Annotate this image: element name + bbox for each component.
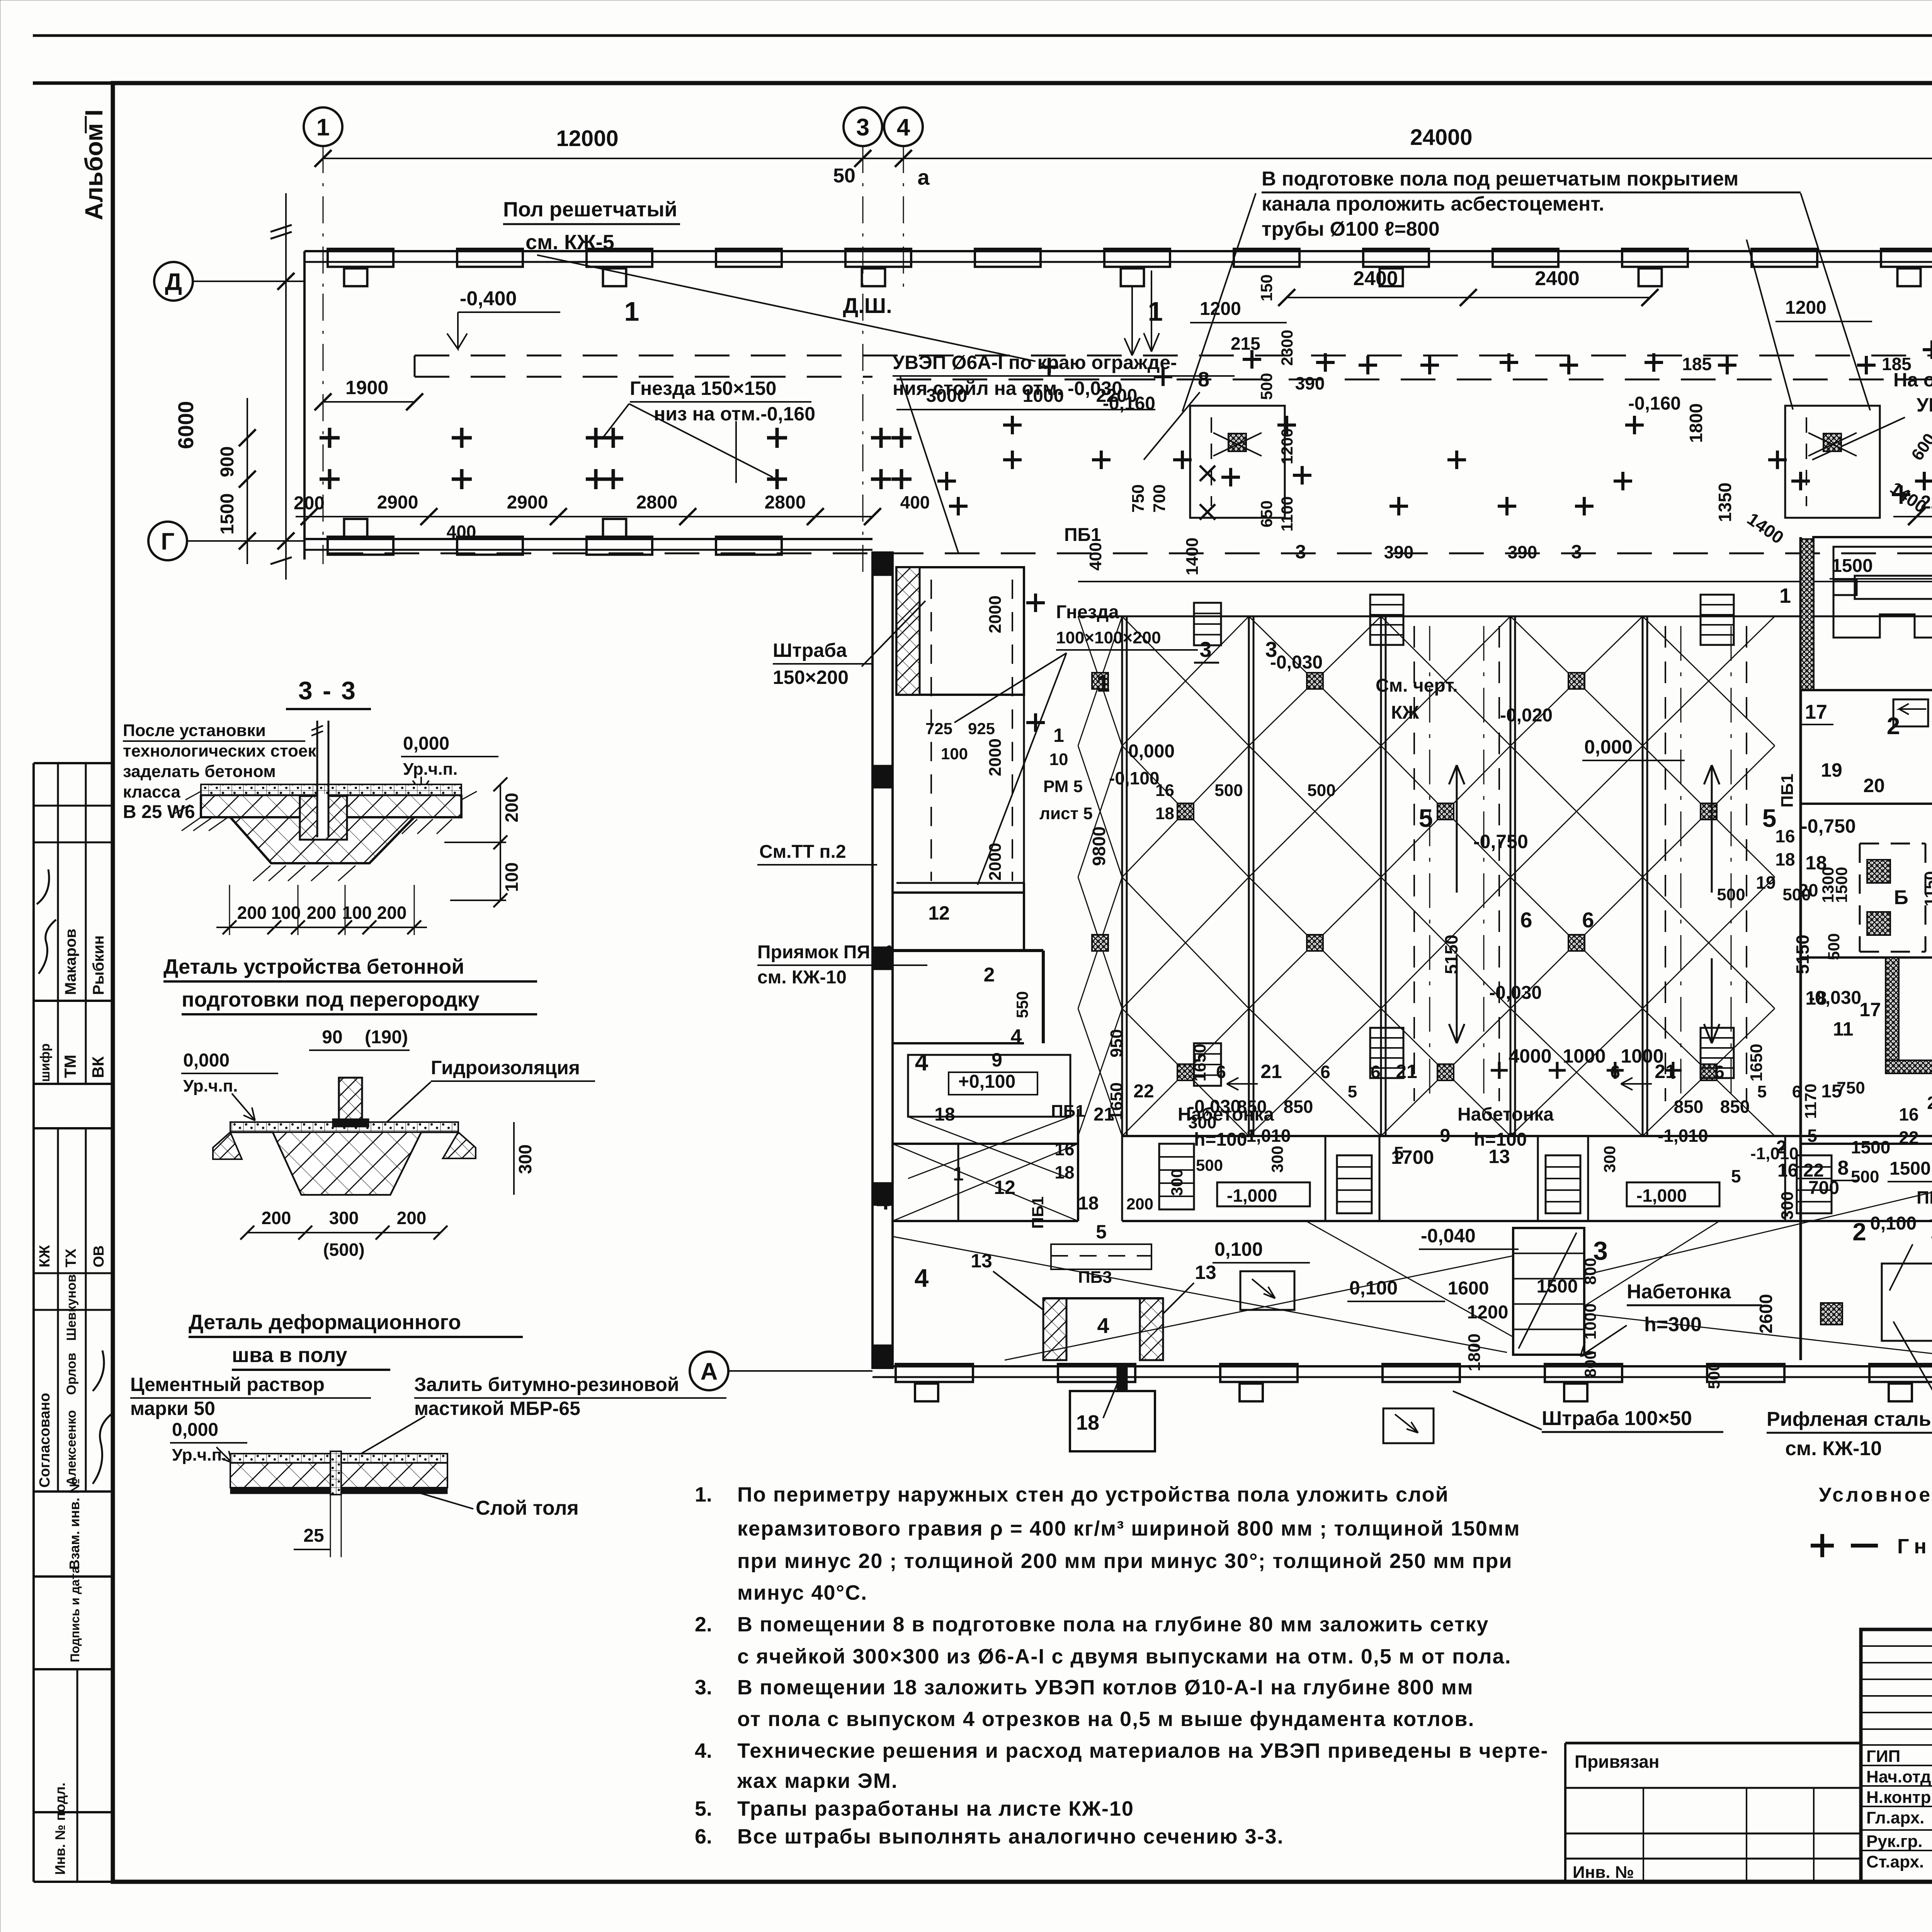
svg-text:Алексеенко: Алексеенко bbox=[64, 1410, 79, 1486]
svg-text:a: a bbox=[917, 165, 930, 189]
svg-text:200: 200 bbox=[294, 493, 325, 514]
svg-text:1150: 1150 bbox=[1921, 871, 1932, 906]
svg-text:Макаров: Макаров bbox=[62, 929, 79, 995]
svg-text:1000: 1000 bbox=[1621, 1045, 1663, 1067]
left end wall of building bbox=[303, 251, 306, 560]
svg-text:700: 700 bbox=[1150, 484, 1169, 512]
svg-text:В помещении 18 заложить УВЭП к: В помещении 18 заложить УВЭП котлов Ø10-… bbox=[737, 1676, 1474, 1699]
svg-text:Б: Б bbox=[1894, 886, 1908, 909]
svg-text:от пола с выпуском 4 отрезков: от пола с выпуском 4 отрезков на 0,5 м в… bbox=[737, 1708, 1475, 1731]
svg-text:мастикой МБР-65: мастикой МБР-65 bbox=[414, 1398, 580, 1419]
milking hall stall rows bbox=[1121, 616, 1123, 1136]
svg-text:ТХ: ТХ bbox=[63, 1248, 79, 1267]
detail 3-3 drawing bbox=[201, 784, 461, 795]
svg-text:3: 3 bbox=[1571, 541, 1582, 563]
svg-text:Гл.арх.: Гл.арх. bbox=[1866, 1808, 1924, 1827]
svg-text:Технические решения и расход м: Технические решения и расход материалов … bbox=[737, 1739, 1548, 1762]
svg-text:100: 100 bbox=[941, 745, 968, 763]
svg-text:См. черт.: См. черт. bbox=[1376, 675, 1458, 696]
svg-text:22: 22 bbox=[1133, 1081, 1154, 1102]
axis circle 4 bbox=[884, 107, 923, 146]
svg-text:2400: 2400 bbox=[1535, 267, 1580, 290]
svg-text:300: 300 bbox=[329, 1208, 359, 1228]
svg-text:750: 750 bbox=[1129, 484, 1148, 512]
svg-text:марки 50: марки 50 bbox=[130, 1398, 215, 1419]
detail 2 drawing bbox=[230, 1122, 458, 1132]
svg-text:А: А bbox=[701, 1358, 718, 1385]
axis circle 3 bbox=[844, 107, 882, 146]
svg-text:По периметру наружных стен до: По периметру наружных стен до устройства… bbox=[737, 1483, 1449, 1506]
svg-text:500: 500 bbox=[1851, 1167, 1879, 1186]
svg-text:шва в полу: шва в полу bbox=[232, 1344, 347, 1367]
svg-text:925: 925 bbox=[968, 719, 995, 738]
svg-text:1800: 1800 bbox=[1465, 1333, 1484, 1371]
svg-text:Шевкунов: Шевкунов bbox=[64, 1274, 79, 1341]
svg-text:На отм.-0,120 заложить: На отм.-0,120 заложить bbox=[1893, 369, 1932, 391]
svg-text:минус 40°С.: минус 40°С. bbox=[737, 1581, 867, 1604]
svg-text:УВЭП Ø6А-I по краю огражде-: УВЭП Ø6А-I по краю огражде- bbox=[893, 352, 1177, 373]
svg-text:0,000: 0,000 bbox=[1584, 736, 1633, 758]
svg-text:см. КЖ-5: см. КЖ-5 bbox=[526, 231, 614, 254]
pit band bbox=[1122, 1135, 1932, 1137]
svg-text:1650: 1650 bbox=[1190, 1044, 1209, 1082]
svg-text:4: 4 bbox=[1011, 1026, 1022, 1048]
svg-text:500: 500 bbox=[1705, 1362, 1723, 1389]
svg-text:4000: 4000 bbox=[1509, 1045, 1551, 1067]
svg-text:2900: 2900 bbox=[507, 492, 548, 513]
room with +0,100 bbox=[908, 1055, 1070, 1117]
svg-text:21: 21 bbox=[1396, 1061, 1417, 1082]
svg-text:В 25 W6: В 25 W6 bbox=[123, 802, 195, 822]
svg-text:550: 550 bbox=[1013, 991, 1031, 1018]
svg-text:1: 1 bbox=[1148, 296, 1163, 327]
svg-text:Залить битумно-резиновой: Залить битумно-резиновой bbox=[414, 1374, 679, 1395]
svg-text:2.: 2. bbox=[695, 1613, 712, 1636]
svg-text:-1,010: -1,010 bbox=[1658, 1126, 1708, 1146]
svg-text:725: 725 bbox=[925, 719, 952, 738]
left margin vertical stamp column bbox=[32, 763, 35, 1882]
svg-text:390: 390 bbox=[1508, 542, 1537, 562]
svg-text:КЖ: КЖ bbox=[1391, 702, 1419, 723]
svg-text:390: 390 bbox=[1384, 542, 1414, 562]
svg-text:-0,030: -0,030 bbox=[1489, 983, 1542, 1003]
svg-text:390: 390 bbox=[1295, 373, 1325, 393]
svg-text:2: 2 bbox=[984, 964, 995, 986]
svg-text:Все штрабы выполнять аналогичн: Все штрабы выполнять аналогично сечению … bbox=[737, 1825, 1284, 1848]
svg-text:лист 5: лист 5 bbox=[1039, 804, 1093, 823]
svg-text:1600: 1600 bbox=[1448, 1278, 1489, 1299]
svg-text:1200: 1200 bbox=[1785, 298, 1827, 318]
bottom wall of left wing bbox=[304, 538, 872, 540]
svg-text:ПБ1: ПБ1 bbox=[1917, 1187, 1932, 1207]
svg-text:2400: 2400 bbox=[1353, 267, 1398, 290]
axis lines vertical bbox=[323, 146, 324, 294]
svg-text:850: 850 bbox=[1284, 1097, 1313, 1117]
svg-text:12000: 12000 bbox=[556, 126, 618, 151]
svg-text:100: 100 bbox=[342, 903, 372, 923]
svg-text:9: 9 bbox=[1440, 1126, 1451, 1146]
svg-text:с ячейкой 300×300 из Ø6-А-I с: с ячейкой 300×300 из Ø6-А-I с двумя выпу… bbox=[737, 1645, 1512, 1668]
svg-text:1200: 1200 bbox=[1467, 1302, 1509, 1323]
svg-text:1650: 1650 bbox=[1747, 1044, 1766, 1082]
svg-text:21: 21 bbox=[1260, 1061, 1282, 1082]
svg-text:низ на отм.-0,160: низ на отм.-0,160 bbox=[654, 403, 815, 425]
svg-text:8: 8 bbox=[1198, 368, 1209, 391]
top exterior wall band bbox=[304, 250, 1932, 252]
-1,000 boxes bbox=[1217, 1182, 1310, 1206]
svg-text:Штраба 100×50: Штраба 100×50 bbox=[1542, 1407, 1692, 1430]
svg-text:5: 5 bbox=[1731, 1166, 1741, 1186]
svg-text:300: 300 bbox=[1778, 1191, 1797, 1219]
top band bottom / inner frame top bbox=[33, 82, 1932, 85]
svg-text:3000: 3000 bbox=[926, 386, 968, 406]
svg-text:1500: 1500 bbox=[217, 493, 238, 535]
svg-text:-1,000: -1,000 bbox=[1636, 1185, 1687, 1206]
svg-text:4.: 4. bbox=[695, 1739, 712, 1762]
svg-text:-0,040: -0,040 bbox=[1421, 1225, 1476, 1247]
svg-text:-0,030: -0,030 bbox=[1270, 652, 1323, 673]
svg-text:Инв. № подл.: Инв. № подл. bbox=[52, 1782, 68, 1875]
svg-text:18: 18 bbox=[1076, 1411, 1099, 1434]
long diagonals bottom area bbox=[893, 1179, 1932, 1360]
svg-text:h=100: h=100 bbox=[1474, 1129, 1527, 1150]
detail 3 drawing bbox=[230, 1454, 447, 1463]
svg-text:В помещении 8 в подготовке пол: В помещении 8 в подготовке пола на глуби… bbox=[737, 1613, 1489, 1636]
svg-text:В подготовке пола под решетчат: В подготовке пола под решетчатым покрыти… bbox=[1262, 168, 1738, 190]
svg-text:ТМ: ТМ bbox=[61, 1054, 79, 1078]
svg-text:2000: 2000 bbox=[986, 738, 1005, 776]
svg-text:-1,000: -1,000 bbox=[1227, 1185, 1277, 1206]
svg-text:Н.контр.: Н.контр. bbox=[1866, 1788, 1932, 1807]
svg-text:Ур.ч.п.: Ур.ч.п. bbox=[183, 1077, 238, 1095]
svg-text:16: 16 bbox=[1899, 1104, 1918, 1124]
svg-text:-0,750: -0,750 bbox=[1801, 815, 1856, 837]
svg-text:1.: 1. bbox=[695, 1483, 712, 1506]
svg-text:ГИП: ГИП bbox=[1866, 1747, 1900, 1766]
svg-text:1500: 1500 bbox=[1832, 556, 1873, 576]
svg-text:200: 200 bbox=[262, 1208, 291, 1228]
svg-text:500: 500 bbox=[1717, 885, 1745, 904]
svg-text:5: 5 bbox=[1096, 1221, 1107, 1243]
svg-text:Г: Г bbox=[161, 528, 174, 555]
svg-text:24000: 24000 bbox=[1410, 125, 1472, 150]
axis circle G bbox=[148, 522, 187, 560]
svg-text:0,100: 0,100 bbox=[1870, 1213, 1917, 1234]
svg-text:1400: 1400 bbox=[1183, 537, 1202, 575]
dashed canal vertical left bbox=[414, 355, 416, 377]
svg-text:300: 300 bbox=[515, 1145, 535, 1174]
svg-text:17: 17 bbox=[1805, 701, 1827, 723]
central block left exterior wall bbox=[872, 553, 893, 1368]
svg-text:200: 200 bbox=[307, 903, 337, 923]
svg-text:3: 3 bbox=[1593, 1236, 1608, 1265]
svg-text:0,000: 0,000 bbox=[172, 1420, 218, 1440]
svg-text:Д: Д bbox=[165, 269, 182, 295]
svg-text:УВЭП Ø6 А-I оцинкованный: УВЭП Ø6 А-I оцинкованный bbox=[1917, 394, 1932, 416]
svg-text:9: 9 bbox=[992, 1049, 1002, 1071]
svg-text:1: 1 bbox=[1097, 670, 1110, 697]
svg-text:5: 5 bbox=[1757, 1082, 1767, 1101]
detail 3-3 bottom dims bbox=[216, 927, 427, 928]
dashed canal line 1 bbox=[415, 355, 1932, 357]
privyazan box bbox=[1565, 1742, 1861, 1745]
svg-text:при минус 20 ; толщиной 200 мм: при минус 20 ; толщиной 200 мм при минус… bbox=[737, 1549, 1513, 1573]
crosses rows left wing bbox=[320, 428, 340, 448]
stairs symbols bbox=[1370, 595, 1403, 645]
svg-text:Гнезда: Гнезда bbox=[1056, 602, 1119, 622]
svg-text:90: 90 bbox=[322, 1027, 342, 1048]
svg-text:5: 5 bbox=[1348, 1082, 1357, 1101]
svg-text:19: 19 bbox=[1756, 872, 1776, 893]
svg-text:6: 6 bbox=[1714, 1062, 1725, 1082]
svg-text:6: 6 bbox=[1582, 908, 1594, 932]
svg-text:заделать бетоном: заделать бетоном bbox=[123, 762, 276, 781]
misc crosses central strip bbox=[1040, 358, 1058, 376]
svg-text:950: 950 bbox=[1107, 1029, 1126, 1057]
svg-text:400: 400 bbox=[447, 522, 476, 542]
svg-text:2900: 2900 bbox=[377, 492, 418, 513]
bottom area stair block bbox=[1513, 1228, 1584, 1355]
svg-text:2: 2 bbox=[1776, 1137, 1787, 1158]
axis circle 1 bbox=[304, 107, 342, 146]
svg-text:Альбом I: Альбом I bbox=[80, 109, 108, 220]
svg-text:200: 200 bbox=[237, 903, 267, 923]
svg-text:трубы Ø100 ℓ=800: трубы Ø100 ℓ=800 bbox=[1262, 218, 1440, 240]
svg-text:2: 2 bbox=[1852, 1218, 1866, 1246]
detail 3-3 right dims bbox=[500, 784, 501, 900]
svg-text:ВК: ВК bbox=[89, 1056, 107, 1078]
svg-text:2300: 2300 bbox=[1278, 330, 1296, 366]
svg-text:-0,160: -0,160 bbox=[1628, 393, 1681, 414]
svg-text:500: 500 bbox=[1196, 1156, 1223, 1174]
svg-text:-0,100: -0,100 bbox=[1109, 768, 1159, 788]
svg-text:Приямок ПЯм1: Приямок ПЯм1 bbox=[757, 942, 894, 963]
svg-text:9800: 9800 bbox=[1089, 827, 1109, 866]
svg-text:(500): (500) bbox=[323, 1240, 364, 1260]
internal walls left part bbox=[893, 891, 1024, 894]
svg-text:Гидроизоляция: Гидроизоляция bbox=[431, 1057, 580, 1078]
svg-text:18: 18 bbox=[1775, 849, 1795, 869]
top dimension line bbox=[323, 158, 1932, 159]
svg-text:Слой толя: Слой толя bbox=[476, 1497, 579, 1519]
svg-text:4: 4 bbox=[1097, 1313, 1109, 1338]
svg-text:0,000: 0,000 bbox=[1128, 741, 1175, 762]
svg-text:1900: 1900 bbox=[345, 377, 388, 398]
svg-text:ПБ1: ПБ1 bbox=[1778, 774, 1797, 808]
detail 2 dims bbox=[247, 1232, 440, 1233]
sheet outer border top bbox=[33, 34, 1932, 37]
svg-text:1500: 1500 bbox=[1851, 1137, 1890, 1157]
svg-text:1: 1 bbox=[316, 114, 330, 141]
svg-text:технологических стоек: технологических стоек bbox=[123, 742, 316, 760]
svg-text:10: 10 bbox=[1049, 750, 1068, 769]
svg-text:шифр: шифр bbox=[38, 1043, 53, 1082]
svg-text:20: 20 bbox=[1863, 775, 1885, 796]
svg-text:см. КЖ-10: см. КЖ-10 bbox=[757, 967, 847, 988]
bottom vestibule bbox=[1070, 1391, 1155, 1451]
svg-text:6000: 6000 bbox=[173, 401, 198, 449]
svg-text:Д.Ш.: Д.Ш. bbox=[843, 293, 892, 318]
svg-text:класса: класса bbox=[123, 782, 180, 801]
svg-text:1650: 1650 bbox=[1107, 1082, 1126, 1120]
svg-text:-1,010: -1,010 bbox=[1240, 1126, 1291, 1146]
svg-text:4: 4 bbox=[876, 1188, 890, 1215]
svg-text:5: 5 bbox=[1762, 804, 1777, 832]
svg-text:850: 850 bbox=[1720, 1097, 1750, 1117]
svg-text:6: 6 bbox=[1216, 1062, 1226, 1082]
svg-text:19: 19 bbox=[1821, 759, 1842, 781]
svg-text:4: 4 bbox=[915, 1264, 929, 1292]
svg-text:(190): (190) bbox=[365, 1027, 408, 1048]
svg-text:5150: 5150 bbox=[1441, 935, 1461, 974]
svg-text:1800: 1800 bbox=[1686, 403, 1706, 443]
dims 3000 1000 2200 bbox=[896, 409, 1155, 410]
svg-text:500: 500 bbox=[1214, 781, 1243, 800]
svg-text:900: 900 bbox=[217, 446, 238, 477]
svg-text:0,000: 0,000 bbox=[183, 1050, 230, 1071]
svg-text:12: 12 bbox=[928, 902, 950, 924]
svg-text:Штраба: Штраба bbox=[773, 639, 847, 661]
svg-text:18: 18 bbox=[1155, 804, 1174, 823]
svg-text:18: 18 bbox=[1054, 1162, 1074, 1182]
svg-text:13: 13 bbox=[1195, 1262, 1216, 1283]
central block bottom exterior wall bbox=[872, 1365, 1932, 1367]
svg-text:Ст.арх.: Ст.арх. bbox=[1866, 1852, 1924, 1871]
svg-text:300: 300 bbox=[1600, 1146, 1619, 1173]
L-shaped wall lower right bbox=[1801, 956, 1932, 959]
svg-text:подготовки под перегородку: подготовки под перегородку bbox=[182, 988, 480, 1011]
svg-text:5.: 5. bbox=[695, 1797, 712, 1820]
axis circle D bbox=[154, 262, 193, 301]
svg-text:Гнездо: Гнездо bbox=[1897, 1535, 1932, 1558]
svg-text:-0,160: -0,160 bbox=[1103, 393, 1155, 414]
svg-text:50: 50 bbox=[833, 165, 855, 187]
svg-text:850: 850 bbox=[1674, 1097, 1704, 1117]
svg-text:h=300: h=300 bbox=[1644, 1313, 1702, 1336]
svg-text:жах марки ЭМ.: жах марки ЭМ. bbox=[737, 1769, 898, 1793]
dashed canal line 2 bbox=[415, 376, 872, 378]
svg-text:Рук.гр.: Рук.гр. bbox=[1866, 1832, 1923, 1851]
svg-text:300: 300 bbox=[1168, 1169, 1186, 1196]
svg-text:Рыбкин: Рыбкин bbox=[90, 935, 107, 995]
svg-text:200: 200 bbox=[1126, 1195, 1153, 1213]
svg-text:Деталь деформационного: Деталь деформационного bbox=[189, 1311, 461, 1334]
lower-left room walls bbox=[1043, 1298, 1066, 1360]
svg-text:РМ 5: РМ 5 bbox=[1043, 777, 1083, 796]
svg-text:Нач.отд.: Нач.отд. bbox=[1866, 1767, 1932, 1786]
svg-text:6.: 6. bbox=[695, 1825, 712, 1848]
svg-text:200: 200 bbox=[502, 793, 522, 823]
svg-text:3.: 3. bbox=[695, 1676, 712, 1699]
svg-text:150×200: 150×200 bbox=[773, 667, 849, 688]
svg-text:4: 4 bbox=[897, 114, 910, 141]
machine room top right bbox=[1799, 537, 1802, 1360]
svg-text:215: 215 bbox=[1231, 333, 1260, 354]
svg-text:200: 200 bbox=[397, 1208, 427, 1228]
canal boxes central bbox=[1190, 406, 1285, 518]
svg-text:1: 1 bbox=[624, 296, 639, 327]
svg-text:18: 18 bbox=[934, 1104, 955, 1125]
svg-text:1500: 1500 bbox=[1537, 1276, 1578, 1297]
left wing bottom dims bbox=[296, 516, 872, 517]
svg-text:16: 16 bbox=[1775, 826, 1795, 846]
svg-text:2800: 2800 bbox=[765, 492, 806, 513]
svg-text:500: 500 bbox=[1825, 933, 1843, 960]
svg-text:1000: 1000 bbox=[1023, 386, 1064, 406]
svg-text:800: 800 bbox=[1581, 1350, 1599, 1378]
svg-text:канала проложить асбестоцемент: канала проложить асбестоцемент. bbox=[1262, 193, 1604, 215]
svg-text:Рифленая сталь: Рифленая сталь bbox=[1767, 1408, 1931, 1430]
svg-text:3 - 3: 3 - 3 bbox=[298, 676, 357, 705]
svg-text:Цементный раствор: Цементный раствор bbox=[130, 1374, 325, 1395]
svg-text:2800: 2800 bbox=[636, 492, 678, 513]
svg-text:6: 6 bbox=[1520, 908, 1532, 932]
svg-text:Орлов: Орлов bbox=[64, 1353, 79, 1395]
svg-text:2000: 2000 bbox=[986, 595, 1005, 633]
svg-text:-0,400: -0,400 bbox=[460, 287, 517, 310]
svg-text:Инв. №: Инв. № bbox=[1573, 1863, 1634, 1882]
svg-text:2000: 2000 bbox=[986, 843, 1005, 881]
svg-text:Деталь устройства бетонной: Деталь устройства бетонной bbox=[163, 955, 464, 978]
dashed feed lanes bbox=[1413, 626, 1415, 1101]
svg-text:0,000: 0,000 bbox=[403, 733, 449, 754]
svg-text:Подпись и дата: Подпись и дата bbox=[68, 1566, 82, 1662]
svg-text:4: 4 bbox=[915, 1049, 929, 1076]
svg-text:1170: 1170 bbox=[1801, 1083, 1820, 1119]
svg-text:18: 18 bbox=[1078, 1193, 1099, 1214]
svg-text:См.ТТ п.2: См.ТТ п.2 bbox=[759, 842, 846, 862]
svg-text:3: 3 bbox=[1295, 541, 1306, 563]
svg-text:3: 3 bbox=[1199, 637, 1211, 662]
svg-text:3: 3 bbox=[856, 114, 869, 141]
svg-text:650: 650 bbox=[1257, 500, 1276, 527]
svg-text:25: 25 bbox=[303, 1526, 324, 1546]
svg-text:ПБ1: ПБ1 bbox=[1064, 525, 1101, 545]
svg-text:h=100: h=100 bbox=[1194, 1129, 1247, 1150]
svg-text:6: 6 bbox=[1371, 1062, 1381, 1082]
svg-text:100: 100 bbox=[271, 903, 301, 923]
svg-text:200: 200 bbox=[377, 903, 407, 923]
svg-text:Набетонка: Набетонка bbox=[1627, 1281, 1731, 1303]
svg-text:КЖ: КЖ bbox=[37, 1245, 53, 1267]
svg-text:5: 5 bbox=[1419, 804, 1433, 832]
svg-text:-0,750: -0,750 bbox=[1473, 831, 1528, 852]
svg-text:185: 185 bbox=[1682, 354, 1712, 374]
svg-text:400: 400 bbox=[1086, 542, 1105, 570]
svg-text:500: 500 bbox=[1257, 373, 1276, 400]
svg-text:5150: 5150 bbox=[1793, 935, 1813, 974]
svg-text:300: 300 bbox=[1268, 1146, 1286, 1173]
svg-text:18: 18 bbox=[1805, 987, 1827, 1009]
title block signature grid bbox=[1861, 1629, 1932, 1882]
svg-text:18: 18 bbox=[1805, 852, 1827, 874]
svg-text:0,100: 0,100 bbox=[1214, 1238, 1263, 1260]
svg-text:Взам. инв. №: Взам. инв. № bbox=[66, 1478, 82, 1570]
svg-text:1100: 1100 bbox=[1278, 496, 1296, 531]
svg-text:+0,100: +0,100 bbox=[958, 1071, 1015, 1092]
svg-text:1200: 1200 bbox=[1200, 299, 1241, 319]
svg-text:100×100×200: 100×100×200 bbox=[1056, 628, 1161, 647]
svg-text:Пол решетчатый: Пол решетчатый bbox=[503, 198, 677, 221]
svg-text:ОВ: ОВ bbox=[91, 1245, 107, 1267]
x marks bbox=[1200, 466, 1215, 520]
right wing bottom dims bbox=[1893, 516, 1932, 517]
svg-text:1000: 1000 bbox=[1563, 1045, 1605, 1067]
svg-text:850: 850 bbox=[1237, 1097, 1267, 1117]
svg-text:16: 16 bbox=[1155, 781, 1174, 800]
left vertical dim line 6000 bbox=[285, 193, 287, 580]
svg-text:750: 750 bbox=[1837, 1078, 1865, 1097]
